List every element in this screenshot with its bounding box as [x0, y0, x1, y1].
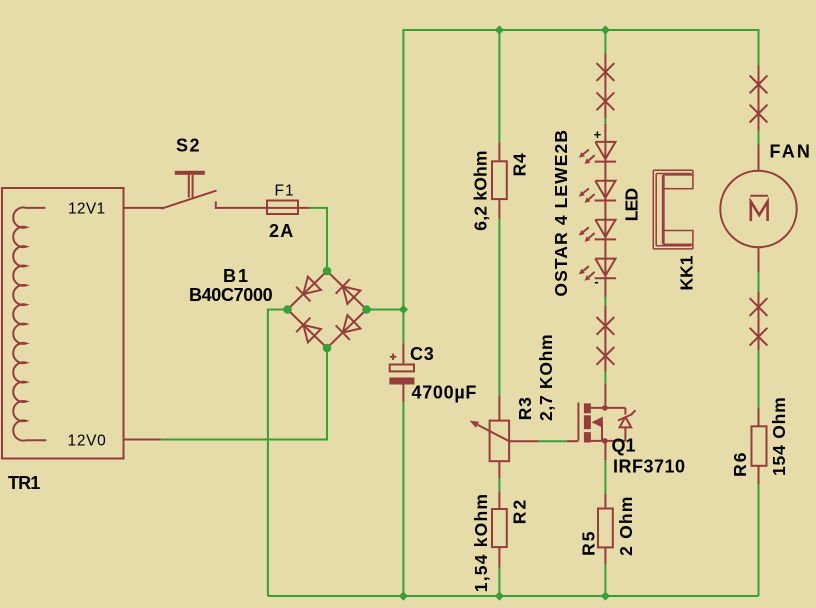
- motor FAN bottom pin: [758, 247, 760, 272]
- svg-text:R3: R3: [515, 396, 535, 420]
- svg-text:TR1: TR1: [8, 473, 40, 493]
- wire fuse to bridge top: [309, 208, 327, 271]
- transistor Q1 source connection: [591, 440, 626, 442]
- wire bridge left node to ground rail: [268, 310, 288, 597]
- svg-text:154 Ohm: 154 Ohm: [769, 396, 789, 476]
- LED string anode pin: [604, 124, 606, 142]
- transistor Q1 drain junction dot: [602, 405, 608, 411]
- potentiometer R3 wiper arrow: [478, 425, 511, 442]
- potentiometer R3 body: [490, 421, 510, 462]
- diode D1 cathode bar: [296, 287, 310, 302]
- wire R5 to bottom rail: [604, 564, 606, 596]
- wire 12V0 net: [161, 348, 327, 440]
- switch S2 right contact: [215, 201, 217, 209]
- resistor R4 bottom pin: [498, 199, 500, 219]
- transistor Q1 drain connection: [591, 407, 626, 409]
- switch S2 actuator bar: [175, 171, 205, 175]
- svg-text:FAN: FAN: [770, 142, 813, 162]
- capacitor C3 bottom plate: [389, 378, 414, 385]
- diode D2 cathode bar: [336, 279, 350, 294]
- resistor R4 body: [492, 161, 507, 199]
- transistor Q1 channel plate: [584, 415, 591, 429]
- jumper cross X1-2: [597, 92, 615, 110]
- wire R3 to R2: [498, 478, 500, 492]
- junction bottom rail / R5: [601, 591, 610, 600]
- junction bridge node left: [283, 305, 292, 314]
- svg-text:R2: R2: [509, 498, 529, 524]
- svg-text:S2: S2: [176, 136, 201, 156]
- LED LED1 emission arrows: [583, 150, 589, 155]
- resistor R5 top pin: [604, 494, 606, 509]
- svg-text:1,54 kOhm: 1,54 kOhm: [471, 493, 491, 592]
- wire R4 to potentiometer R3: [498, 219, 500, 395]
- svg-text:B1: B1: [223, 266, 250, 286]
- jumper cross X3-1: [750, 76, 768, 94]
- LED LED3 triangle: [595, 220, 615, 237]
- junction top rail / R4: [495, 25, 504, 34]
- LED LED2 cathode bar: [595, 200, 617, 202]
- transistor Q1 source plate: [584, 432, 591, 442]
- wire R3 wiper to Q1 gate: [538, 440, 566, 442]
- capacitor C3 top plate: [390, 365, 414, 372]
- resistor R5 bottom pin: [604, 547, 606, 564]
- wire motor to lower connector: [758, 272, 760, 292]
- transformer TR1 box: [2, 188, 124, 459]
- svg-text:IRF3710: IRF3710: [613, 457, 686, 477]
- diode D3 triangle: [303, 325, 321, 342]
- junction bottom rail / R2: [495, 591, 504, 600]
- svg-text:R4: R4: [509, 153, 529, 177]
- resistor R6 bottom pin: [758, 466, 760, 484]
- svg-text:2A: 2A: [269, 221, 295, 241]
- motor FAN circle: [720, 171, 796, 247]
- resistor R6 body: [752, 426, 767, 466]
- transistor Q1 body diode branch: [624, 408, 626, 415]
- FAN branch lower connector pins: [758, 292, 760, 350]
- potentiometer R3 bottom pin: [498, 461, 500, 478]
- transistor Q1 drain plate: [584, 403, 591, 413]
- capacitor C3 top pin: [402, 344, 404, 365]
- transistor Q1 gate line: [577, 403, 579, 441]
- jumper cross X3-2: [750, 105, 768, 123]
- potentiometer R3 wiper pin: [509, 440, 538, 442]
- transistor Q1 gate pin: [567, 440, 579, 442]
- transformer TR1 winding: [13, 207, 46, 440]
- svg-text:12V1: 12V1: [68, 201, 105, 218]
- wire R2 to bottom rail: [498, 568, 500, 597]
- transistor Q1 body diode triangle: [620, 417, 632, 428]
- transistor Q1 source junction dot: [602, 438, 608, 444]
- motor FAN M letter: [751, 202, 768, 222]
- LED branch lower connector pins: [604, 306, 606, 372]
- junction bottom rail / C3: [399, 591, 408, 600]
- svg-text:-: -: [594, 274, 598, 289]
- junction filter node: [399, 305, 408, 314]
- jumper cross X2-1: [597, 317, 615, 335]
- transistor Q1 body diode cathode bar: [618, 414, 633, 421]
- jumper cross X4-1: [750, 298, 768, 316]
- motor FAN overline: [750, 195, 768, 197]
- wire C3 to bottom rail: [402, 402, 404, 596]
- wire bridge right node to filter node: [367, 309, 404, 311]
- LED LED4 emission arrows: [583, 266, 589, 271]
- svg-text:B40C7000: B40C7000: [189, 285, 273, 305]
- diode D4 triangle: [343, 315, 361, 332]
- svg-text:12V0: 12V0: [68, 433, 107, 450]
- junction top rail / LED: [601, 25, 610, 34]
- wire R6 to bottom rail: [758, 484, 760, 596]
- FAN branch upper connector pins: [758, 66, 760, 131]
- LED LED4 triangle: [595, 259, 615, 276]
- diode D1 triangle: [303, 277, 321, 294]
- switch S2 actuator stem: [188, 175, 190, 198]
- svg-text:2 Ohm: 2 Ohm: [616, 495, 636, 555]
- capacitor C3 bottom pin: [402, 385, 404, 403]
- wire connector to Q1 drain: [604, 372, 606, 384]
- wire top power rail: [403, 30, 758, 310]
- LED string internal wire: [604, 142, 606, 278]
- svg-text:F1: F1: [275, 182, 295, 199]
- junction bridge node top: [323, 267, 332, 276]
- svg-text:KK1: KK1: [677, 255, 697, 290]
- resistor R6 top pin: [758, 408, 760, 427]
- capacitor C3 plus sign: [390, 356, 396, 358]
- diode D2 triangle: [343, 286, 361, 303]
- LED LED4 cathode bar: [595, 277, 617, 279]
- resistor R2 bottom pin: [498, 547, 500, 567]
- wire top rail to LED branch: [604, 30, 606, 53]
- svg-text:R5: R5: [578, 530, 598, 556]
- fuse F1 body: [267, 201, 298, 215]
- wire top rail to R4: [498, 30, 500, 142]
- diode D3 cathode bar: [296, 318, 310, 333]
- LED branch upper connector pins: [604, 53, 606, 118]
- motor FAN top pin: [758, 145, 760, 172]
- potentiometer R3 top pin: [498, 395, 500, 420]
- LED LED3 cathode bar: [595, 238, 617, 240]
- wire LED cathode to lower connector: [604, 297, 606, 305]
- svg-text:Q1: Q1: [612, 436, 636, 456]
- LED LED2 emission arrows: [583, 188, 589, 193]
- resistor R5 body: [598, 509, 613, 548]
- junction bridge node bottom: [323, 344, 332, 353]
- wire Q1 source to R5: [604, 441, 606, 461]
- LED string cathode pin: [604, 278, 606, 297]
- svg-text:OSTAR 4 LEWE2B: OSTAR 4 LEWE2B: [551, 129, 571, 297]
- resistor R4 top pin: [498, 142, 500, 161]
- wire connector to LED anode: [604, 118, 606, 123]
- pin 12V0: [124, 439, 161, 441]
- wire filter node to C3: [402, 310, 404, 344]
- bridge B1 edges: [288, 271, 367, 348]
- jumper cross X4-2: [750, 328, 768, 346]
- pin 12V1: [124, 207, 164, 209]
- junction bridge node right: [362, 305, 371, 314]
- svg-text:R6: R6: [730, 451, 750, 477]
- diode D4 cathode bar: [336, 325, 350, 340]
- resistor R2 top pin: [498, 492, 500, 510]
- heatsink KK1: [653, 170, 693, 249]
- switch S2 lever: [161, 191, 216, 209]
- resistor R2 body: [492, 509, 507, 547]
- svg-text:2,7 KOhm: 2,7 KOhm: [536, 334, 556, 421]
- wire bottom rail: [268, 595, 759, 597]
- LED LED1 triangle: [595, 142, 615, 159]
- LED LED2 triangle: [595, 181, 615, 198]
- jumper cross X2-2: [597, 347, 615, 365]
- transistor Q1 bulk arrow: [592, 417, 603, 428]
- jumper cross X1-1: [597, 63, 615, 81]
- wire connector to motor: [758, 131, 760, 145]
- svg-text:6,2 kOhm: 6,2 kOhm: [470, 150, 490, 230]
- wire connector to R6: [758, 350, 760, 408]
- fuse F1 through-line and right pin: [267, 207, 309, 209]
- svg-text:4700µF: 4700µF: [412, 383, 478, 403]
- LED LED3 emission arrows: [583, 227, 589, 232]
- svg-text:C3: C3: [410, 344, 435, 364]
- svg-text:+: +: [594, 127, 602, 142]
- svg-text:LED: LED: [621, 189, 641, 222]
- LED LED1 cathode bar: [595, 161, 617, 163]
